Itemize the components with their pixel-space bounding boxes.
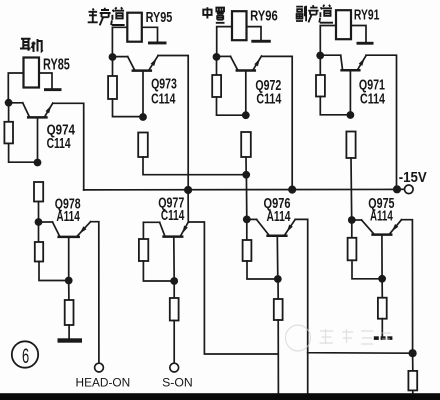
resistor (Q973 base chain) [138,133,246,175]
wire (Q972 emitter to right rail) [262,56,293,189]
svg-text:6: 6 [22,344,29,368]
node (Q975 collector) [348,216,356,224]
relay RY96 [232,11,247,40]
svg-text:S-ON: S-ON [162,375,193,389]
terminal -15V [405,185,414,194]
wire (Q976 right lead to bottom) [307,353,309,393]
svg-text:RY96: RY96 [250,8,278,25]
resistor (Q976 left) [243,219,278,279]
node (bottom right junction) [409,349,417,357]
relay RY95 [127,13,142,42]
wire [247,27,262,40]
wire [142,27,158,41]
ground [148,42,167,45]
node (Q974 collector) [5,99,13,107]
wire (Q978 emitter to HEAD-ON) [91,222,99,364]
svg-text:A114: A114 [56,209,79,225]
resistor (Q972 base chain) [241,132,251,175]
svg-text:C114: C114 [151,91,175,107]
node (bus / Q972 emitter) [288,186,296,194]
wire [39,73,52,88]
node (Q973 collector) [109,53,117,61]
ground (dashed) [374,336,393,340]
node (chain junction) [242,171,250,179]
wire (bus to Q977 emitter) [187,190,189,222]
terminal HEAD-ON [95,363,104,372]
transistor Q977 [143,222,188,281]
resistor (bottom right) [408,353,417,393]
terminal S-ON [170,363,179,372]
svg-text:A114: A114 [267,209,291,225]
wire (Q977 emitter right lead) [188,222,278,354]
node (bus / -15V terminal) [393,185,401,193]
label 副声道 (sub channel) [296,5,333,23]
svg-text:Q973: Q973 [151,77,177,93]
transistor Q971 [320,55,366,115]
svg-text:C114: C114 [161,208,184,224]
resistor (Q974 base chain) [34,182,43,222]
svg-text:C114: C114 [360,91,385,107]
node (Q978 collector) [35,218,43,226]
wire [397,188,405,190]
resistor (Q975 left) [348,220,383,279]
resistor (Q976 base chain down) [274,279,283,393]
svg-text:C114: C114 [256,91,281,107]
resistor (Q974 collector) [4,103,37,162]
svg-text:HEAD-ON: HEAD-ON [76,375,131,389]
label 耳机 (headphone) [20,39,43,52]
ground [251,40,270,43]
ground [357,42,374,45]
node circled 6 [12,341,38,367]
transistor Q972 [217,56,262,115]
svg-text:C114: C114 [47,136,71,152]
node (bus / Q977) [184,186,192,194]
resistor (Q975 base down) [378,279,387,337]
node (Q974 base) [34,159,42,167]
resistor (Q971 collector) [316,56,350,115]
wire (Q976 emitter right lead) [295,219,412,353]
wire [112,27,127,57]
resistor (Q977 left) [139,222,174,281]
node (Q971 base) [347,111,355,119]
svg-text:RY91: RY91 [354,7,380,24]
wire [320,26,336,56]
node (Q977 base) [170,277,178,285]
transistor Q974 [9,103,53,163]
resistor (Q972 collector) [212,57,246,115]
resistor (Q977 base to S-ON) [170,281,179,363]
node (Q976 collector) [243,216,251,224]
wire -15V bus [84,188,397,191]
relay RY91 [336,10,351,39]
svg-text:A114: A114 [370,209,393,225]
wire [217,27,232,57]
wire (Q974 emitter to -15V rail) [53,103,84,190]
wire (chain to Q976) [245,175,247,220]
label 主声道 (main channel) [88,7,125,25]
node (Q972 base) [242,111,250,119]
bottom scan bar [0,393,440,400]
label 中置 (center) [203,7,224,22]
resistor (Q973 collector) [108,57,143,117]
resistor (Q971 base chain) [346,132,355,221]
node (Q976 base) [274,275,282,283]
node (Q972 collector) [213,53,221,61]
resistor (Q978 emitter to ground) [65,281,74,339]
wire (Q975 emitter right lead) [402,220,413,354]
relay RY85 [24,58,40,88]
transistor Q975 [352,220,402,279]
wire (Q973 emitter to right rail) [158,56,188,191]
transistor Q973 [113,56,159,117]
svg-text:-15V: -15V [399,169,427,186]
node (Q975 base) [378,275,386,283]
node (Q978 base) [65,277,73,285]
node (Q971 collector) [316,52,324,60]
watermark [286,325,392,351]
wire (Q971 emitter to right rail) [366,55,397,189]
transistor Q978 [39,222,91,281]
ground [58,338,83,342]
ground [44,88,62,91]
svg-text:RY85: RY85 [43,57,70,74]
wire [351,26,366,42]
resistor (Q978 left) [35,222,69,281]
node (Q973 base) [139,113,147,121]
svg-text:RY95: RY95 [146,9,173,26]
transistor Q976 [247,219,295,279]
wire [8,73,23,103]
